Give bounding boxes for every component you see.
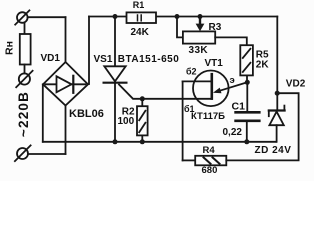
wire X1 to down-corner	[28, 16, 66, 18]
svg-text:2K: 2K	[256, 60, 270, 71]
svg-text:0,22: 0,22	[223, 127, 243, 138]
wire to R3 left end	[177, 17, 183, 38]
triac VS1	[104, 17, 127, 142]
terminal X1 top-left	[15, 10, 29, 24]
bridge rectifier VD1 diamond	[43, 62, 88, 106]
svg-text:R3: R3	[209, 22, 222, 33]
svg-text:KBL06: KBL06	[69, 108, 104, 120]
wiper arrow R3	[196, 17, 205, 32]
base2 lead of VT1	[183, 81, 212, 160]
svg-text:BTA151-650: BTA151-650	[118, 54, 180, 65]
capacitor C1	[236, 82, 260, 142]
svg-text:R4: R4	[203, 145, 216, 156]
wire X3 to bridge-bottom vertical	[28, 153, 66, 155]
svg-text:э: э	[230, 75, 235, 86]
terminal X2	[16, 71, 32, 87]
svg-text:б2: б2	[186, 66, 197, 76]
node dot emitter	[245, 80, 250, 85]
resistor R4	[183, 156, 227, 166]
wire R3 right to R5 top	[215, 37, 247, 45]
svg-text:~220В: ~220В	[16, 91, 31, 137]
wire bridge right corner up to top rail	[88, 17, 90, 85]
svg-text:VD1: VD1	[41, 53, 61, 64]
wire bridge bottom corner down to X3 wire	[65, 106, 67, 155]
node dot R3 left feed	[175, 14, 180, 19]
resistor R5	[240, 45, 253, 82]
svg-text:33K: 33K	[189, 45, 209, 56]
zener VD2	[269, 106, 285, 142]
emitter wire with arrow into VT1	[213, 82, 247, 93]
node dot gate/R2	[140, 96, 145, 101]
svg-text:VD2: VD2	[286, 78, 306, 89]
svg-text:КТ117Б: КТ117Б	[191, 111, 225, 122]
wire R4 right loop to +rail dot	[226, 93, 298, 160]
resistor Rн (load)	[20, 23, 31, 74]
terminal X3 bottom-left	[15, 145, 31, 161]
node dot C1 bottom	[244, 139, 249, 144]
resistor R2	[137, 99, 148, 142]
svg-text:ZD 24V: ZD 24V	[255, 145, 292, 156]
node dot right rail	[275, 91, 280, 96]
svg-text:VS1: VS1	[94, 54, 113, 65]
right rail down from top	[276, 17, 278, 110]
transistor VT1 (UJT)	[193, 71, 229, 107]
svg-text:VT1: VT1	[205, 58, 224, 69]
svg-text:680: 680	[202, 165, 218, 176]
gate wire of VS1	[119, 85, 212, 99]
wire down to bridge top	[65, 17, 67, 62]
wire bridge left corner down to bottom rail	[42, 84, 44, 142]
top rail	[89, 16, 277, 18]
svg-text:Rн: Rн	[3, 41, 15, 55]
bottom rail	[43, 141, 276, 143]
svg-text:100: 100	[118, 116, 135, 127]
node dot R2 bottom	[140, 139, 145, 144]
node dot R3 wiper	[198, 14, 203, 19]
svg-text:R1: R1	[133, 0, 145, 10]
node dot VS1 anode	[113, 14, 118, 19]
node dot VS1 cathode on rail	[113, 139, 118, 144]
resistor R1	[127, 12, 157, 23]
diode inside VD1	[46, 76, 86, 93]
svg-text:24K: 24K	[131, 27, 150, 38]
potentiometer R3	[183, 31, 215, 43]
svg-text:C1: C1	[232, 101, 246, 113]
